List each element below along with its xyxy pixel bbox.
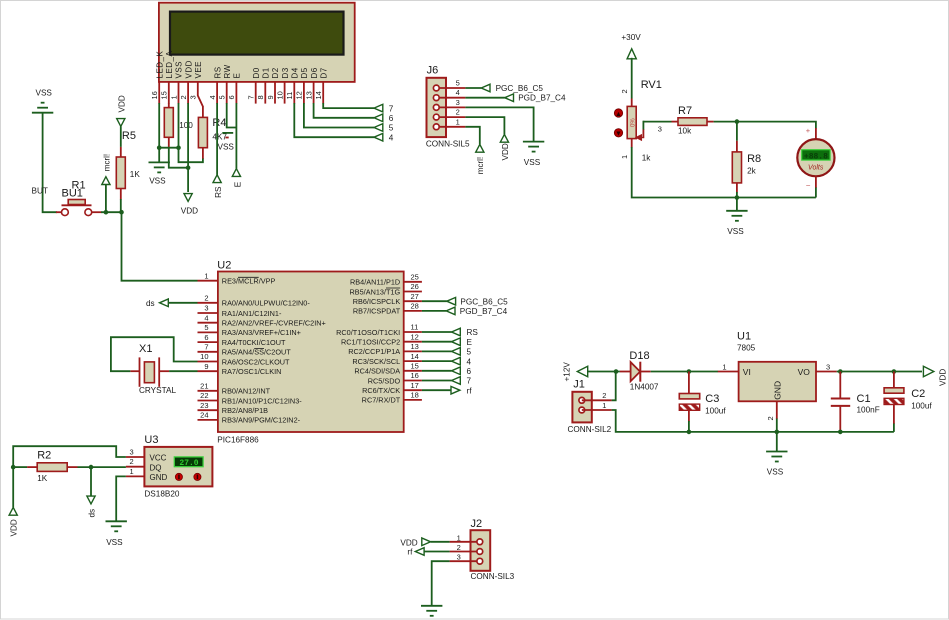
svg-text:RC0/T1OSO/T1CKI: RC0/T1OSO/T1CKI (336, 328, 400, 337)
svg-text:E: E (233, 73, 242, 79)
terminal 6 (U2) (422, 370, 452, 372)
terminal 7 (374, 104, 383, 112)
svg-text:3: 3 (130, 448, 134, 457)
svg-text:2: 2 (456, 108, 460, 117)
wire X1 right to U2 pin9 (159, 370, 169, 372)
svg-text:+: + (806, 126, 811, 135)
svg-text:1: 1 (457, 533, 461, 542)
svg-text:VDD: VDD (181, 207, 198, 216)
svg-text:VSS: VSS (106, 538, 123, 547)
svg-text:CONN-SIL3: CONN-SIL3 (471, 572, 515, 581)
svg-text:100: 100 (179, 121, 193, 130)
svg-text:PGC_B6_C5: PGC_B6_C5 (460, 297, 508, 306)
svg-text:▼: ▼ (615, 131, 622, 138)
wire R7 to node (714, 121, 737, 123)
svg-text:RA5/AN4/SS/C2OUT: RA5/AN4/SS/C2OUT (222, 348, 291, 357)
wire branch to VDD node (169, 148, 188, 168)
svg-text:1k: 1k (642, 153, 652, 162)
wire RS pin down (216, 103, 218, 175)
svg-text:2: 2 (457, 543, 461, 552)
svg-text:4K7: 4K7 (212, 133, 227, 142)
svg-text:D4: D4 (291, 67, 300, 78)
svg-text:RC4/SDI/SDA: RC4/SDI/SDA (354, 367, 400, 376)
svg-text:D18: D18 (629, 350, 649, 362)
ground VSS (J6) (523, 141, 544, 143)
ground (J2) (421, 605, 442, 607)
svg-text:RA6/OSC2/CLKOUT: RA6/OSC2/CLKOUT (222, 357, 290, 366)
terminal ds (U3) (90, 467, 92, 496)
terminal VDD (under LCD) (184, 194, 192, 202)
svg-text:18: 18 (411, 391, 419, 400)
svg-text:RA4/T0CKI/C1OUT: RA4/T0CKI/C1OUT (222, 338, 286, 347)
svg-text:4: 4 (456, 88, 460, 97)
svg-text:VEE: VEE (194, 61, 203, 79)
terminal 4 (374, 133, 383, 141)
U2 overline MCLR (238, 276, 259, 278)
wire (631, 58, 633, 99)
LCD screen (170, 12, 344, 55)
terminal 6 (374, 114, 383, 122)
svg-text:J6: J6 (427, 65, 439, 77)
svg-text:10: 10 (275, 91, 284, 99)
svg-text:C1: C1 (857, 393, 871, 405)
U2 right pins (404, 281, 422, 283)
node junction (157, 145, 162, 150)
svg-text:D5: D5 (300, 67, 309, 78)
svg-text:CONN-SIL2: CONN-SIL2 (568, 425, 612, 434)
wire J6 pin5 to PGC (465, 87, 481, 89)
svg-text:RA3/AN3/VREF+/C1IN+: RA3/AN3/VREF+/C1IN+ (222, 328, 301, 337)
svg-text:3: 3 (456, 98, 460, 107)
wire J6 pin1 to mcrl (465, 127, 479, 145)
wire LED_K to gnd net (158, 103, 160, 148)
U3 display 27.0 (174, 457, 203, 467)
terminal PGD_B7_C4 (J6) (505, 94, 514, 102)
svg-text:2: 2 (179, 95, 188, 99)
svg-text:mcrl!: mcrl! (102, 154, 111, 171)
svg-text:5: 5 (204, 323, 208, 332)
svg-text:RB4/AN11/P1D: RB4/AN11/P1D (350, 278, 400, 287)
svg-text:16: 16 (150, 91, 159, 99)
wire VSS pin net (178, 103, 180, 148)
wire D18 to U1 (651, 371, 718, 373)
svg-text:1K: 1K (37, 474, 48, 483)
terminal PGC_B6_C5 (U2) (447, 297, 456, 305)
wire J2 pin3 to ground (432, 561, 450, 606)
svg-text:R5: R5 (122, 130, 136, 142)
wire node to voltmeter (737, 122, 816, 129)
svg-text:3: 3 (826, 363, 830, 372)
svg-text:12: 12 (411, 332, 419, 341)
svg-text:VSS: VSS (727, 227, 744, 236)
terminal RS (U2) (422, 331, 452, 333)
svg-text:5: 5 (389, 124, 394, 133)
svg-text:11: 11 (411, 323, 419, 332)
svg-text:RB3/AN9/PGM/C12IN2-: RB3/AN9/PGM/C12IN2- (222, 416, 301, 425)
svg-text:VSS: VSS (149, 177, 166, 186)
svg-text:J1: J1 (573, 379, 585, 391)
svg-text:RB0/AN12/INT: RB0/AN12/INT (222, 387, 271, 396)
svg-text:100nF: 100nF (857, 406, 880, 415)
svg-text:LED_K: LED_K (155, 50, 164, 78)
ground VSS (R8) (736, 198, 738, 211)
svg-text:VSS: VSS (175, 61, 184, 79)
svg-text:6: 6 (467, 367, 472, 376)
svg-text:R2: R2 (37, 450, 51, 462)
svg-text:RC2/CCP1/P1A: RC2/CCP1/P1A (348, 347, 400, 356)
svg-text:25: 25 (411, 273, 419, 282)
wire (101, 211, 122, 213)
svg-text:10: 10 (200, 352, 208, 361)
svg-text:ds: ds (88, 509, 97, 518)
terminal PGD_B7_C4 (U2) (446, 307, 455, 315)
svg-text:GND: GND (772, 381, 782, 400)
svg-text:+12V: +12V (562, 362, 571, 382)
svg-text:RC3/SCK/SCL: RC3/SCK/SCL (352, 357, 400, 366)
terminal VDD (bottom left) (12, 467, 14, 507)
ground VSS (U3) (106, 520, 127, 522)
terminal RS (LCD) (213, 175, 221, 183)
node junction (687, 430, 692, 435)
svg-text:D0: D0 (252, 67, 261, 78)
svg-text:RB1/AN10/P1C/C12IN3-: RB1/AN10/P1C/C12IN3- (222, 396, 302, 405)
capacitor C2 100uf (893, 372, 895, 388)
terminal mcrl! (J6) (476, 144, 484, 152)
potentiometer RV1 (631, 99, 633, 107)
svg-text:mcrl!: mcrl! (476, 157, 485, 174)
wire +12V to D18 (588, 371, 620, 373)
svg-text:PIC16F886: PIC16F886 (217, 436, 259, 445)
svg-text:VDD: VDD (117, 95, 126, 112)
resistor 100 (LCD contrast) (168, 103, 170, 108)
svg-text:BUT: BUT (32, 187, 48, 196)
svg-text:5: 5 (218, 95, 227, 99)
svg-text:7805: 7805 (737, 343, 756, 352)
wire rail to voltmeter (737, 197, 816, 199)
svg-text:14: 14 (314, 91, 323, 99)
capacitor C1 100nF (839, 372, 841, 398)
svg-text:PGC_B6_C5: PGC_B6_C5 (496, 84, 544, 93)
svg-text:VDD: VDD (184, 60, 193, 78)
wire J1 pin2 to +12V node (612, 372, 616, 401)
svg-text:BU1: BU1 (62, 188, 83, 200)
svg-text:R4: R4 (212, 117, 226, 129)
U3 pin stubs (126, 456, 144, 458)
U2 left pins (198, 280, 218, 282)
svg-text:U1: U1 (737, 331, 751, 343)
svg-text:10k: 10k (678, 127, 692, 136)
svg-text:D1: D1 (262, 67, 271, 78)
svg-text:7: 7 (389, 104, 394, 113)
LCD data bus wires to terminals (294, 103, 374, 137)
svg-text:E: E (233, 181, 242, 187)
button R1/BU1 (56, 211, 61, 213)
terminal 4 (U2) (422, 360, 452, 362)
svg-text:16: 16 (411, 371, 419, 380)
svg-text:▲: ▲ (615, 111, 622, 118)
svg-text:RS: RS (213, 66, 222, 78)
svg-text:100uf: 100uf (705, 406, 726, 415)
svg-text:9: 9 (266, 95, 275, 99)
resistor R7 (672, 121, 679, 123)
wire VSS-pin to R4 bottom (179, 148, 203, 163)
svg-text:5: 5 (467, 348, 472, 357)
svg-text:13: 13 (304, 91, 313, 99)
node junction (838, 369, 843, 374)
svg-text:RS: RS (214, 186, 223, 198)
svg-text:27.0: 27.0 (179, 459, 198, 468)
terminal E (LCD) (232, 169, 240, 177)
svg-text:6: 6 (389, 114, 394, 123)
svg-text:3: 3 (457, 553, 461, 562)
LCD pin stubs and numbers (158, 82, 160, 104)
svg-text:8: 8 (256, 95, 265, 99)
node junction (838, 430, 843, 435)
svg-text:D7: D7 (319, 67, 328, 78)
wire U1 VO to output rail (837, 371, 922, 373)
node junction (186, 165, 191, 170)
svg-text:3: 3 (189, 95, 198, 99)
svg-text:3: 3 (204, 304, 208, 313)
terminal rf (U2 pin 17) (422, 389, 451, 391)
wire VDD rail to U3 VCC (13, 446, 126, 467)
svg-text:2: 2 (130, 457, 134, 466)
node junction (687, 369, 692, 374)
svg-text:VDD: VDD (10, 519, 19, 536)
svg-text:CRYSTAL: CRYSTAL (139, 386, 176, 395)
svg-text:12: 12 (295, 91, 304, 99)
svg-text:DS18B20: DS18B20 (144, 490, 179, 499)
svg-text:VSS: VSS (36, 89, 53, 98)
svg-text:DQ: DQ (150, 464, 162, 473)
svg-text:22: 22 (200, 391, 208, 400)
svg-text:VCC: VCC (150, 453, 167, 462)
svg-text:9: 9 (204, 362, 208, 371)
svg-text:1: 1 (722, 363, 726, 372)
svg-text:1: 1 (602, 401, 606, 410)
bottom rail wire (689, 431, 894, 433)
svg-text:E: E (467, 338, 473, 347)
svg-text:2: 2 (620, 89, 629, 93)
svg-text:1: 1 (204, 271, 208, 280)
node junction (104, 210, 109, 215)
wire RW pin (227, 103, 237, 128)
svg-text:rf: rf (407, 548, 413, 557)
svg-text:RA2/AN2/VREF-/CVREF/C2IN+: RA2/AN2/VREF-/CVREF/C2IN+ (222, 319, 326, 328)
svg-text:RC1/T1OSI/CCP2: RC1/T1OSI/CCP2 (341, 338, 400, 347)
svg-text:RV1: RV1 (641, 79, 662, 91)
svg-text:RB6/ICSPCLK: RB6/ICSPCLK (353, 297, 401, 306)
svg-text:J2: J2 (471, 518, 483, 530)
svg-text:7: 7 (467, 377, 472, 386)
svg-text:RB5/AN13/T1G: RB5/AN13/T1G (349, 287, 400, 296)
svg-text:7: 7 (247, 95, 256, 99)
svg-text:RE3/MCLR/VPP: RE3/MCLR/VPP (222, 277, 276, 286)
svg-text:4: 4 (204, 313, 208, 322)
wire VDD pin down (187, 103, 189, 192)
svg-text:+30V: +30V (621, 33, 641, 42)
terminal PGC_B6_C5 (J6) (481, 84, 490, 92)
svg-text:VI: VI (743, 367, 751, 377)
terminal E (U2) (422, 341, 452, 343)
svg-text:5: 5 (456, 79, 460, 88)
svg-text:3: 3 (658, 125, 662, 134)
wire J1 pin1 to rail (612, 410, 689, 432)
svg-text:21: 21 (200, 382, 208, 391)
svg-text:R7: R7 (678, 105, 692, 117)
wire RV1 bottom rail (632, 147, 737, 198)
wire R2 to DQ (78, 466, 126, 468)
wire U2 pin27 to PGC terminal (422, 300, 447, 302)
svg-text:D6: D6 (310, 67, 319, 78)
svg-text:−: − (806, 181, 811, 190)
svg-text:U2: U2 (217, 260, 231, 272)
svg-text:U3: U3 (144, 434, 158, 446)
svg-text:1: 1 (130, 467, 134, 476)
wire E pin down (235, 103, 237, 169)
svg-text:rf: rf (467, 386, 473, 395)
svg-text:VO: VO (798, 367, 811, 377)
wire J6 pin2 to VDD (465, 117, 504, 134)
svg-text:RB7/ICSPDAT: RB7/ICSPDAT (353, 307, 401, 316)
wire (43, 113, 57, 213)
svg-text:1K: 1K (130, 170, 141, 179)
svg-text:7: 7 (204, 343, 208, 352)
svg-text:VDD: VDD (938, 369, 947, 386)
svg-text:RB2/AN8/P1B: RB2/AN8/P1B (222, 406, 268, 415)
svg-text:RA7/OSC1/CLKIN: RA7/OSC1/CLKIN (222, 367, 282, 376)
wire voltmeter minus to rail (815, 188, 817, 198)
svg-text:4: 4 (208, 95, 217, 99)
wire U2 pin28 to PGD terminal (422, 310, 446, 312)
svg-text:VDD: VDD (400, 538, 417, 547)
svg-text:PGD_B7_C4: PGD_B7_C4 (460, 307, 508, 316)
svg-text:+88.8: +88.8 (804, 153, 828, 162)
svg-text:13: 13 (411, 342, 419, 351)
node junction (735, 195, 740, 200)
svg-text:RC5/SDO: RC5/SDO (368, 376, 401, 385)
svg-text:1N4007: 1N4007 (630, 383, 659, 392)
svg-text:4: 4 (467, 357, 472, 366)
terminal VDD (output) (923, 366, 933, 377)
node junction (614, 369, 619, 374)
svg-text:15: 15 (160, 91, 169, 99)
terminal mcrl! (102, 177, 110, 185)
U3 buttons (175, 473, 182, 480)
svg-text:VDD: VDD (501, 143, 510, 160)
terminal 5 (U2) (422, 350, 452, 352)
svg-text:28: 28 (411, 302, 419, 311)
svg-text:RC6/TX/CK: RC6/TX/CK (362, 386, 400, 395)
svg-text:1: 1 (620, 155, 629, 159)
svg-text:Volts: Volts (808, 164, 824, 171)
svg-text:26: 26 (411, 282, 419, 291)
RV1 wiper arrow (636, 135, 643, 140)
svg-text:1: 1 (456, 117, 460, 126)
resistor R5 (120, 126, 122, 146)
svg-text:RC7/RX/DT: RC7/RX/DT (362, 396, 401, 405)
svg-text:RA1/AN1/C12IN1-: RA1/AN1/C12IN1- (222, 309, 282, 318)
ground VSS (under LCD) (158, 148, 160, 163)
resistor R8 (736, 122, 738, 141)
node junction (89, 465, 94, 470)
svg-text:0%: 0% (631, 118, 637, 127)
svg-text:R8: R8 (747, 153, 761, 165)
svg-text:15: 15 (411, 362, 419, 371)
svg-text:GND: GND (150, 473, 168, 482)
svg-text:4: 4 (389, 133, 394, 142)
U2 overline T1G (386, 287, 400, 289)
svg-text:VSS: VSS (767, 468, 784, 477)
resistor R4 (202, 106, 204, 117)
svg-text:RW: RW (223, 64, 232, 78)
wire X1 left to U2 pin10 (130, 370, 139, 372)
svg-text:D2: D2 (271, 67, 280, 78)
U2 overline SS (254, 347, 264, 349)
svg-text:27: 27 (411, 292, 419, 301)
svg-text:11: 11 (285, 92, 294, 100)
svg-text:17: 17 (411, 381, 419, 390)
svg-text:1: 1 (169, 95, 178, 99)
svg-text:VSS: VSS (524, 158, 541, 167)
terminal 7 (U2) (422, 380, 452, 382)
svg-text:2k: 2k (747, 166, 757, 175)
svg-text:C3: C3 (705, 393, 719, 405)
svg-text:2: 2 (602, 391, 606, 400)
wire U3 GND to ground (116, 476, 126, 521)
svg-text:C2: C2 (911, 388, 925, 400)
node junction (775, 430, 780, 435)
svg-text:100uf: 100uf (911, 401, 932, 410)
svg-text:LED_A: LED_A (165, 50, 174, 78)
svg-text:ds: ds (146, 299, 155, 308)
svg-text:D3: D3 (281, 67, 290, 78)
wire to U2 pin 1 (122, 212, 198, 281)
capacitor C3 100uf (688, 372, 690, 394)
svg-text:PGD_B7_C4: PGD_B7_C4 (518, 94, 566, 103)
svg-text:RS: RS (467, 328, 479, 337)
svg-text:6: 6 (204, 333, 208, 342)
wire J6 pin4 to PGD (465, 97, 504, 99)
wire wiper to R7 (643, 121, 671, 123)
terminal VDD (J6) (500, 134, 508, 142)
terminal 5 (374, 124, 383, 132)
ground VSS (U1) (776, 432, 778, 452)
wire J6 pin3 to ground (465, 107, 533, 141)
svg-text:14: 14 (411, 352, 419, 361)
node junction (735, 119, 740, 124)
svg-text:VSS: VSS (218, 143, 235, 152)
svg-text:RA0/AN0/ULPWU/C12IN0-: RA0/AN0/ULPWU/C12IN0- (222, 299, 311, 308)
svg-text:24: 24 (200, 411, 208, 420)
svg-text:2: 2 (766, 416, 775, 420)
svg-text:CONN-SIL5: CONN-SIL5 (426, 139, 470, 148)
node junction (11, 465, 16, 470)
voltmeter (Volts) (815, 128, 817, 140)
svg-text:23: 23 (200, 401, 208, 410)
svg-text:6: 6 (227, 95, 236, 99)
wire junction bar (159, 147, 178, 149)
svg-text:2: 2 (204, 294, 208, 303)
LCD display LCD1 body (159, 3, 355, 82)
svg-text:X1: X1 (139, 343, 152, 355)
